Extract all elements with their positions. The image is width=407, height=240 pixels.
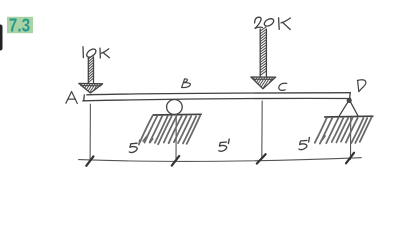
svg-text:7.3: 7.3 xyxy=(9,14,30,35)
